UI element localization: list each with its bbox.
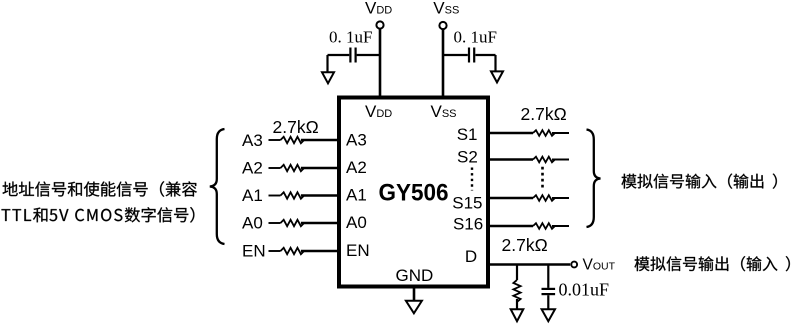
svg-text:0. 1uF: 0. 1uF [329, 28, 372, 47]
wire chip pin S15 to resistor [486, 197, 533, 200]
annotation text: analog signal input (output) [622, 174, 777, 189]
node label A3 [242, 131, 263, 150]
svg-text:0. 1uF: 0. 1uF [454, 28, 497, 47]
pin label S2 (inside) [457, 148, 478, 167]
power net label VDD [365, 0, 392, 18]
capacitor C1 value 0.1uF [329, 28, 372, 47]
wire resistor to chip pin A1 [301, 194, 339, 197]
capacitor C3 value 0.01uF [559, 280, 610, 300]
ground symbol (R12) [511, 309, 524, 321]
pin label D (inside) [465, 247, 477, 266]
svg-text:A0: A0 [242, 214, 263, 233]
annotation text: address and enable signals (TTL and 5V CMOS compatible) line 1 [3, 181, 197, 197]
brace grouping analog signal lines [587, 130, 601, 228]
wire R12 to ground [516, 299, 518, 309]
svg-text:GND: GND [396, 266, 434, 285]
node label A1 [242, 186, 263, 205]
svg-text:EN: EN [346, 241, 370, 260]
wire resistor to chip pin A3 [301, 139, 339, 142]
svg-text:A2: A2 [346, 158, 367, 177]
ellipsis dots between S2 and S15 (inside) [471, 168, 473, 191]
wire VDD to C1 [357, 54, 380, 56]
svg-text:EN: EN [242, 241, 266, 260]
resistor value label 2.7kOhm (D) [502, 235, 548, 255]
pin label VSS (inside) [431, 102, 457, 121]
svg-text:A1: A1 [346, 186, 367, 205]
pin label A2 (inside) [346, 158, 367, 177]
resistor value label 2.7kOhm (S1) [521, 104, 567, 124]
svg-text:2.7kΩ: 2.7kΩ [521, 104, 567, 124]
brace grouping address/enable inputs [210, 129, 225, 244]
pin label EN (inside) [346, 241, 370, 260]
node label EN [242, 241, 266, 260]
pin label GND (inside) [396, 266, 434, 285]
wire junction to resistor R12 [516, 265, 518, 281]
node label A2 [242, 159, 263, 178]
svg-text:D: D [465, 247, 477, 266]
resistor R12 2.7kOhm to ground [513, 280, 520, 302]
wire EN lead [269, 250, 281, 252]
resistor R5 2.7kOhm in series with A0 [281, 220, 305, 226]
svg-text:A2: A2 [242, 159, 263, 178]
pin label VDD (inside) [365, 102, 392, 121]
svg-text:2.7kΩ: 2.7kΩ [273, 117, 319, 137]
resistor R10 2.7kOhm on S16 [533, 223, 555, 229]
wire chip pin S16 to resistor [486, 225, 533, 228]
wire A0 lead [269, 222, 281, 224]
terminal VOUT [571, 262, 577, 268]
IC name label GY506 [379, 180, 449, 207]
terminal VSS [439, 22, 446, 29]
wire S16 open end [552, 225, 569, 227]
capacitor C2 [469, 48, 474, 63]
pin label S1 (inside) [457, 125, 478, 144]
ground symbol (C1) [322, 72, 334, 83]
pin label S15 (inside) [452, 194, 482, 213]
capacitor C1 [350, 48, 355, 63]
capacitor C3 [542, 289, 556, 294]
terminal VDD [376, 21, 383, 28]
wire chip pin S1 to resistor [486, 132, 533, 135]
IC U1 GY506 multiplexer body [339, 98, 488, 287]
svg-text:S16: S16 [453, 215, 483, 234]
wire VSS to C2 [443, 54, 468, 56]
wire C1 to ground [328, 55, 350, 72]
wire chip GND pin down [413, 286, 416, 301]
resistor R6 2.7kOhm in series with EN [281, 248, 305, 254]
svg-text:2.7kΩ: 2.7kΩ [502, 235, 548, 255]
wire C2 to ground [475, 55, 495, 71]
svg-text:S15: S15 [452, 194, 482, 213]
pin label A3 (inside) [346, 130, 367, 149]
resistor R3 2.7kOhm in series with A2 [281, 165, 305, 171]
resistor R8 2.7kOhm on S2 [533, 157, 555, 163]
wire resistor to chip pin A0 [301, 222, 339, 225]
ground symbol (C2) [491, 71, 503, 82]
wire resistor to chip pin EN [301, 250, 339, 253]
output net label VOUT [583, 256, 616, 273]
wire C3 to ground [547, 295, 549, 309]
resistor R9 2.7kOhm on S15 [533, 195, 555, 201]
wire A2 lead [269, 167, 281, 169]
ground symbol (GND pin) [406, 301, 422, 314]
wire chip pin D to VOUT terminal [486, 263, 570, 266]
wire S1 open end [552, 132, 569, 134]
annotation text: analog signal output (input) [635, 256, 790, 271]
wire VSS terminal to chip VSS pin [442, 30, 445, 97]
svg-text:A1: A1 [242, 186, 263, 205]
pin label S16 (inside) [453, 215, 483, 234]
wire S2 open end [552, 159, 569, 161]
wire VDD terminal to chip VDD pin [379, 29, 382, 97]
resistor R2 2.7kOhm in series with A3 [281, 137, 305, 143]
wire junction to capacitor C3 [547, 265, 549, 288]
annotation text line 2 [2, 207, 195, 223]
svg-text:0.01uF: 0.01uF [559, 280, 610, 300]
pin label A1 (inside) [346, 186, 367, 205]
ellipsis dots between S2 and S15 lines [541, 167, 544, 190]
svg-text:GY506: GY506 [379, 180, 449, 207]
wire chip pin S2 to resistor [486, 158, 533, 161]
wire resistor to chip pin A2 [301, 167, 339, 170]
node label A0 [242, 214, 263, 233]
ground symbol (C3) [542, 309, 555, 321]
power net label VSS [433, 0, 459, 18]
wire A3 lead [269, 139, 281, 141]
resistor R4 2.7kOhm in series with A1 [281, 192, 305, 198]
resistor R7 2.7kOhm on S1 [533, 130, 555, 136]
svg-text:A3: A3 [242, 131, 263, 150]
svg-text:S1: S1 [457, 125, 478, 144]
pin label A0 (inside) [346, 213, 367, 232]
svg-text:A0: A0 [346, 213, 367, 232]
wire A1 lead [269, 195, 281, 197]
capacitor C2 value 0.1uF [454, 28, 497, 47]
svg-text:S2: S2 [457, 148, 478, 167]
svg-text:A3: A3 [346, 130, 367, 149]
wire S15 open end [552, 197, 569, 199]
resistor value label 2.7kOhm (A3) [273, 117, 319, 137]
